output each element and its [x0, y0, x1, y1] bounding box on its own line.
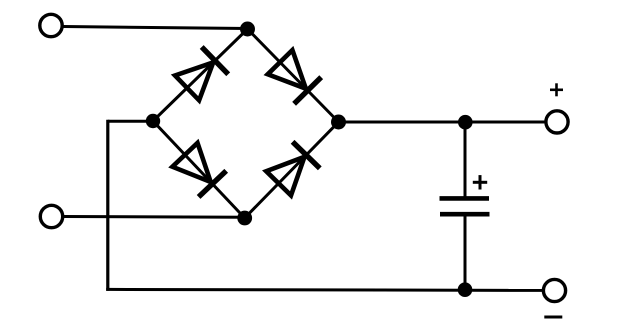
wire capacitor bottom lead [464, 214, 467, 290]
diode D1 triangle (anode at left node, cathode toward top node) [175, 62, 213, 100]
node left (junction dot) [146, 114, 160, 128]
wire J2 to bottom node [64, 215, 245, 219]
wire bottom rail (negative) [106, 289, 543, 290]
wire bridge edge, top node to right node [248, 29, 339, 122]
wire left node to negative rail (vertical segment) [106, 120, 109, 291]
wire bridge edge, left node to bottom node [153, 121, 245, 218]
diode D2 cathode bar [294, 77, 321, 104]
diode D4 cathode bar [293, 142, 320, 169]
terminal J2 (AC input, bottom left) [40, 205, 62, 227]
node right (junction dot) [331, 115, 346, 130]
wire bridge edge, left node to top node [153, 29, 248, 121]
wire J1 to top node [64, 27, 248, 29]
wire left node to negative rail (horizontal segment) [108, 120, 153, 123]
diode D4 triangle (anode at bottom node, cathode toward right node) [266, 157, 304, 196]
capacitor C1 bottom plate [440, 212, 490, 217]
diode D3 triangle (anode at left node, cathode toward bottom node) [172, 143, 210, 182]
diode D2 triangle (anode at top node, cathode toward right node) [268, 50, 306, 89]
terminal J1 (AC input, top left) [40, 14, 62, 36]
wire bridge edge, bottom node to right node [245, 122, 339, 218]
node top (junction dot) [240, 22, 255, 37]
node capacitor bottom junction [458, 282, 473, 297]
diode D3 cathode bar [199, 171, 227, 197]
node capacitor top junction [458, 115, 473, 130]
terminal J3 (positive output) [546, 111, 568, 133]
capacitor C1 top plate [440, 196, 490, 201]
wire right node to positive terminal [339, 121, 545, 124]
capacitor C1 polarity plus label [473, 175, 487, 189]
diode D1 cathode bar [202, 47, 229, 74]
wire capacitor top lead [464, 122, 467, 199]
node bottom (junction dot) [237, 211, 252, 226]
terminal J4 (negative output) [543, 279, 565, 301]
label plus at positive output terminal [550, 83, 563, 96]
label minus at negative output terminal [544, 316, 562, 319]
